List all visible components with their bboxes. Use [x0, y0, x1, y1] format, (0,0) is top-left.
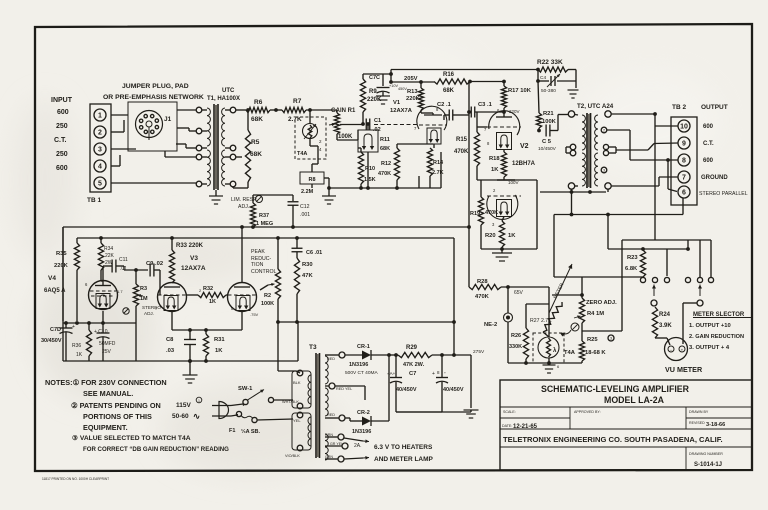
resistor R3 [135, 270, 137, 284]
svg-text:YEL: YEL [293, 418, 301, 423]
wire T4A bottom rail [508, 362, 582, 364]
svg-text:C.T.: C.T. [54, 137, 67, 144]
capacitor C1 [365, 119, 367, 130]
wire bus B [77, 237, 454, 239]
svg-text:GR YEL: GR YEL [330, 442, 343, 446]
potentiometer R2 [277, 238, 279, 269]
svg-text:100K: 100K [261, 301, 274, 307]
svg-text:DRAWN BY: DRAWN BY [689, 410, 709, 414]
svg-text:SCHEMATIC-LEVELING AMPLIFIER: SCHEMATIC-LEVELING AMPLIFIER [541, 384, 690, 394]
ground below R20 [501, 249, 503, 253]
svg-text:470K: 470K [454, 149, 469, 155]
svg-text:R25: R25 [587, 337, 598, 343]
svg-text:SW-1: SW-1 [238, 386, 253, 392]
svg-text:JUMPER PLUG, PAD: JUMPER PLUG, PAD [122, 83, 189, 90]
svg-text:600: 600 [703, 124, 714, 130]
svg-text:R31: R31 [214, 337, 225, 343]
svg-text:R18: R18 [489, 156, 500, 162]
svg-text:R21: R21 [543, 111, 554, 117]
svg-text:.03: .03 [166, 348, 175, 354]
wire T4A to lim resp [311, 163, 313, 165]
selector wiper right [699, 285, 701, 297]
svg-text:40/450V: 40/450V [396, 387, 417, 393]
capacitor C7A [395, 355, 397, 377]
svg-text:R20: R20 [485, 233, 496, 239]
svg-text:50MFD: 50MFD [99, 341, 116, 347]
wire TB2 pin6 down [682, 198, 684, 215]
svg-text:1. OUTPUT +10: 1. OUTPUT +10 [689, 323, 731, 329]
svg-text:GAIN R1: GAIN R1 [331, 108, 356, 114]
selector wiper left [653, 285, 655, 297]
wire stereo parallel jumper [666, 158, 670, 162]
svg-text:C12: C12 [300, 204, 310, 210]
resistor R17 [502, 80, 506, 84]
triode V3 right [228, 283, 257, 312]
wire selector to VU [683, 302, 697, 304]
adjust screw [571, 323, 579, 331]
svg-text:+: + [432, 371, 435, 377]
svg-text:.001: .001 [300, 212, 310, 218]
resistor R15 [474, 132, 479, 166]
svg-text:2A.: 2A. [354, 443, 362, 449]
capacitor C6 [295, 236, 299, 240]
svg-text:10: 10 [680, 124, 688, 131]
svg-text:1M: 1M [140, 296, 148, 302]
wire fuse to T3 [257, 419, 293, 420]
svg-text:C 5: C 5 [542, 139, 552, 145]
meter arrow [549, 264, 572, 313]
resistor R28 [468, 227, 470, 287]
svg-text:600: 600 [703, 158, 714, 164]
svg-text:STEREO: STEREO [142, 305, 161, 310]
ground center [189, 361, 191, 375]
svg-text:+ C10: + C10 [94, 329, 108, 335]
svg-text:PORTIONS OF THIS: PORTIONS OF THIS [83, 412, 152, 421]
svg-text:R26: R26 [511, 333, 521, 339]
svg-text:MODEL LA-2A: MODEL LA-2A [604, 395, 665, 405]
svg-text:R22 33K: R22 33K [537, 59, 563, 66]
svg-text:R4 1M: R4 1M [587, 311, 604, 317]
ground below C7C [382, 92, 384, 96]
resistor R23 [640, 250, 645, 277]
svg-text:R23: R23 [627, 255, 638, 261]
tube V4 [89, 281, 118, 310]
svg-text:600: 600 [57, 109, 69, 116]
svg-text:5: 5 [98, 181, 102, 188]
resistor R35 [76, 238, 78, 243]
resistor R24 [652, 307, 657, 338]
wire to ground ps [396, 411, 471, 413]
svg-text:BLK: BLK [293, 380, 301, 385]
wire R26 top [526, 303, 549, 305]
svg-text:REVISED: REVISED [689, 421, 705, 425]
resistor R7 [282, 107, 306, 112]
wire center tap [335, 385, 365, 387]
svg-text:6.3 V TO HEATERS: 6.3 V TO HEATERS [374, 444, 433, 451]
svg-text:C11: C11 [119, 257, 128, 263]
wire T2 to TB2 pin9 [616, 149, 648, 151]
svg-text:S-1014-1J: S-1014-1J [694, 462, 722, 468]
svg-text:1K: 1K [209, 299, 216, 305]
wire cathode bias row [63, 322, 136, 324]
svg-text:OUTPUT: OUTPUT [701, 104, 728, 111]
svg-text:40/450V: 40/450V [443, 387, 464, 393]
svg-text:PEAK: PEAK [251, 249, 265, 255]
svg-text:RED YEL: RED YEL [336, 387, 352, 391]
svg-text:T4A: T4A [564, 350, 576, 356]
svg-text:220K: 220K [54, 263, 69, 269]
svg-text:100K: 100K [338, 134, 353, 140]
svg-text:1: 1 [198, 399, 200, 403]
svg-text:APPROVED BY:: APPROVED BY: [574, 410, 601, 414]
wire T2 right taps bracket [609, 146, 616, 148]
svg-text:R13: R13 [407, 89, 418, 95]
svg-text:TION: TION [251, 262, 264, 268]
svg-text:EQUIPMENT.: EQUIPMENT. [83, 423, 128, 432]
resistor R5 [247, 110, 249, 130]
svg-text:2. GAIN REDUCTION: 2. GAIN REDUCTION [689, 334, 744, 340]
svg-text:+: + [681, 348, 684, 353]
svg-text:AND METER LAMP: AND METER LAMP [374, 456, 434, 463]
connector J1 [136, 111, 163, 138]
wire meter bus [622, 239, 711, 241]
resistor R6 [246, 107, 270, 112]
wire V3 right plate up [241, 227, 243, 283]
capacitor C11 [111, 260, 113, 273]
ground power supply [464, 409, 479, 411]
svg-text:C7C: C7C [369, 75, 380, 81]
resistor R27 [543, 302, 562, 332]
svg-text:3: 3 [603, 168, 605, 172]
svg-text:RED: RED [327, 413, 335, 417]
svg-text:CONTROL: CONTROL [251, 269, 276, 275]
ground at C4 [575, 81, 577, 88]
svg-text:FOR CORRECT “DB GAIN REDUCTION: FOR CORRECT “DB GAIN REDUCTION” READING [83, 446, 229, 453]
resistor R18 [503, 149, 505, 152]
svg-text:R33 220K: R33 220K [176, 243, 204, 249]
svg-text:T3: T3 [309, 344, 317, 351]
svg-text:450V: 450V [398, 87, 407, 91]
wire cathode return line [329, 187, 441, 189]
svg-text:WHT/BLK: WHT/BLK [282, 400, 299, 404]
svg-text:② PATENTS PENDING ON: ② PATENTS PENDING ON [71, 401, 161, 410]
trimmer capacitor C4 [550, 76, 552, 86]
wire V2 cathode bottom [477, 179, 537, 181]
svg-text:250: 250 [56, 123, 68, 130]
ground below R8 [322, 195, 336, 197]
resistor R20 [502, 217, 504, 222]
resistor R36 [88, 323, 90, 330]
photocell of T4A [309, 110, 311, 124]
svg-text:2: 2 [98, 130, 102, 137]
svg-text:1K: 1K [491, 167, 499, 173]
wire T2 to TB2 pin10 [611, 113, 655, 115]
svg-text:DATE:: DATE: [502, 424, 512, 428]
svg-text:ADJ.: ADJ. [144, 311, 154, 316]
svg-text:⅓A SB.: ⅓A SB. [241, 429, 261, 435]
transformer T1 [196, 107, 202, 113]
svg-text:▫ A+: ▫ A+ [387, 371, 396, 376]
wire selector feed [608, 248, 688, 250]
svg-text:1.5K: 1.5K [364, 177, 376, 183]
resistor R21 [538, 81, 539, 113]
resistor R25 [581, 328, 583, 341]
svg-text:12AX7A: 12AX7A [181, 265, 206, 272]
wire top supply line [391, 69, 538, 71]
svg-text:1N3196: 1N3196 [349, 362, 368, 368]
wire ground bus [63, 360, 298, 362]
triode V2 upper [489, 111, 520, 135]
transformer T3 secondary [325, 356, 328, 384]
svg-text:TELETRONIX ENGINEERING CO.: TELETRONIX ENGINEERING CO. SOUTH PASADEN… [503, 435, 723, 444]
svg-text:1: 1 [98, 113, 102, 120]
svg-text:R2: R2 [264, 293, 271, 299]
svg-text:C6 .01: C6 .01 [306, 250, 322, 256]
resistor R37 [252, 195, 254, 203]
wire left riser [62, 227, 64, 323]
svg-text:−: − [670, 348, 673, 353]
wire T1 bottom to ground [236, 156, 242, 158]
capacitor C12 [288, 201, 299, 203]
resistor R13 [418, 88, 423, 110]
svg-text:ZERO ADJ.: ZERO ADJ. [586, 300, 617, 306]
svg-text:SCALE:: SCALE: [503, 410, 516, 414]
svg-text:11817 PRINTED ON NO. 1000H: 11817 PRINTED ON NO. 1000H CLEARPRINT [42, 477, 109, 481]
resistor R26 [525, 304, 527, 328]
resistor R10 [358, 152, 363, 184]
resistor R19 [478, 197, 483, 225]
wire primary riser [278, 370, 296, 372]
svg-text:∿: ∿ [193, 411, 200, 421]
svg-text:470K: 470K [475, 294, 490, 300]
svg-text:R24: R24 [659, 312, 671, 318]
svg-text:30/450V: 30/450V [41, 338, 62, 344]
fuse F1 [236, 411, 241, 416]
svg-text:F1: F1 [229, 428, 235, 434]
capacitor C7B [441, 355, 443, 377]
resistor R12 [394, 148, 399, 180]
svg-text:R11: R11 [380, 137, 390, 143]
svg-text:R16: R16 [443, 72, 455, 78]
wire V3 cathodes [171, 311, 173, 330]
svg-text:INPUT: INPUT [51, 97, 73, 104]
resistor R9 [360, 79, 365, 112]
svg-text:R8: R8 [308, 177, 315, 183]
wire R7 to gain pot [306, 109, 337, 111]
svg-text:3: 3 [98, 147, 102, 154]
triode V2 lower [487, 195, 518, 219]
wire T4A top [548, 287, 550, 337]
svg-text:C7D: C7D [50, 327, 61, 333]
wire B+ drop [453, 238, 455, 355]
svg-text:47K: 47K [302, 273, 313, 279]
svg-text:STEREO PARALLEL: STEREO PARALLEL [699, 191, 748, 197]
svg-text:470K: 470K [378, 171, 391, 177]
svg-text:GROUND: GROUND [701, 175, 728, 181]
wire R16 right [470, 81, 504, 83]
svg-text:220K: 220K [406, 96, 421, 102]
svg-text:10/450V: 10/450V [538, 146, 557, 152]
wire grid R15 top [476, 112, 478, 127]
photocell lamp [538, 337, 559, 358]
svg-text:R29: R29 [406, 345, 418, 351]
wire T1 secondary top [236, 109, 246, 111]
svg-text:2.2M: 2.2M [301, 189, 314, 195]
wire 322 line [278, 321, 454, 323]
svg-text:+: + [72, 324, 75, 330]
svg-text:68K: 68K [250, 151, 262, 158]
svg-text:4: 4 [98, 164, 102, 171]
selector contacts left [640, 277, 645, 282]
svg-text:V1: V1 [393, 100, 401, 106]
svg-text:R17 10K: R17 10K [508, 88, 532, 94]
svg-text:50-60: 50-60 [172, 413, 189, 420]
svg-text:115V: 115V [176, 402, 191, 409]
wire C5 to T2 primary [550, 130, 558, 132]
svg-text:GRN: GRN [325, 433, 333, 437]
wire C1 to V1 grid [340, 124, 362, 126]
resistor R14 [433, 144, 435, 148]
svg-text:R5: R5 [251, 139, 260, 146]
resistor R8 [300, 172, 324, 184]
wire R37 node [253, 194, 293, 196]
svg-text:18-68 K: 18-68 K [585, 350, 606, 356]
svg-text:R34: R34 [104, 246, 113, 252]
wire bleeder [470, 355, 472, 408]
wire R22 bypass [537, 70, 539, 82]
wire R6-R7 [270, 109, 282, 111]
svg-text:3. OUTPUT + 4: 3. OUTPUT + 4 [689, 345, 730, 351]
VU meter [665, 338, 688, 361]
svg-text:1 MEG: 1 MEG [256, 221, 273, 227]
svg-text:CR-2: CR-2 [357, 410, 370, 416]
svg-text:205V: 205V [404, 76, 418, 82]
svg-text:6: 6 [682, 190, 686, 197]
svg-text:R3: R3 [140, 286, 147, 292]
jumper plug box [128, 102, 177, 151]
svg-text:250: 250 [56, 151, 68, 158]
wire filter ground [396, 411, 442, 413]
resistor R30 [296, 252, 298, 258]
svg-text:R12: R12 [381, 161, 391, 167]
svg-text:12AX7A: 12AX7A [390, 108, 413, 114]
svg-text:68K: 68K [443, 88, 455, 94]
terminal strip TB2 [671, 117, 697, 205]
svg-text:TB 1: TB 1 [87, 197, 101, 204]
svg-text:275V: 275V [473, 349, 485, 355]
svg-text:R9: R9 [369, 89, 377, 95]
svg-text:NE-2: NE-2 [484, 322, 497, 328]
svg-text:2.7K: 2.7K [432, 170, 444, 176]
wire T2 left taps [566, 146, 570, 148]
wire top supply riser [390, 70, 392, 83]
svg-text:12BH7A: 12BH7A [512, 161, 536, 167]
svg-text:V2: V2 [520, 143, 529, 150]
svg-text:VU METER: VU METER [665, 365, 703, 374]
svg-text:65V: 65V [514, 290, 524, 296]
svg-text:2: 2 [603, 128, 605, 132]
svg-text:68K: 68K [251, 116, 263, 123]
svg-text:C3 .1: C3 .1 [478, 102, 493, 108]
svg-text:R6: R6 [254, 99, 263, 106]
wire plate to T2 [571, 189, 573, 215]
wire R8 to ground [311, 184, 313, 188]
svg-text:V4: V4 [48, 275, 56, 282]
svg-text:R37: R37 [259, 213, 269, 219]
wire switch to T3 [274, 399, 294, 401]
svg-text:6.8K: 6.8K [625, 266, 638, 272]
svg-text:22K: 22K [105, 253, 115, 259]
svg-text:68K: 68K [380, 146, 390, 152]
svg-text:V3: V3 [190, 255, 198, 262]
svg-text:50-380: 50-380 [541, 88, 556, 94]
wire R5 bottom [247, 182, 249, 188]
svg-text:330K: 330K [509, 344, 522, 350]
terminal strip TB1 [90, 104, 111, 192]
wire coupling to V2 [468, 82, 470, 227]
svg-text:ADJ.: ADJ. [238, 204, 249, 210]
wire V2 lower box [480, 180, 482, 190]
svg-text:VIO/BLK: VIO/BLK [285, 454, 300, 458]
svg-text:1.7: 1.7 [117, 289, 123, 294]
svg-text:OR PRE-EMPHASIS NETWORK: OR PRE-EMPHASIS NETWORK [103, 94, 204, 101]
photocell T4A lower dashed box [533, 333, 564, 363]
svg-text:470K: 470K [485, 210, 498, 216]
svg-text:J1: J1 [164, 116, 172, 123]
ground below T1 [215, 190, 217, 196]
wire ground bus right [297, 322, 299, 361]
svg-text:1K: 1K [76, 352, 83, 358]
svg-text:③ VALUE SELECTED TO MATCH T4A: ③ VALUE SELECTED TO MATCH T4A [72, 434, 191, 442]
svg-text:1K: 1K [508, 233, 516, 239]
svg-text:7: 7 [682, 175, 686, 182]
svg-text:C2 .1: C2 .1 [437, 102, 452, 108]
wire selector riser [666, 249, 668, 276]
svg-text:3.9K: 3.9K [659, 323, 672, 329]
wire T2 to TB2 pin8 [607, 129, 630, 131]
resistor R11 box [358, 130, 378, 152]
resistor R16 [434, 79, 470, 84]
svg-text:C.T.: C.T. [703, 141, 714, 147]
optical attenuator T4A dashed box [295, 117, 326, 159]
svg-text:SEE MANUAL.: SEE MANUAL. [83, 389, 133, 398]
svg-text:TB 2: TB 2 [672, 104, 686, 111]
resistor R31 [205, 330, 207, 334]
svg-text:9: 9 [682, 141, 686, 148]
svg-text:600: 600 [56, 165, 68, 172]
svg-text:R32: R32 [203, 286, 213, 292]
potentiometer R4 [581, 277, 583, 298]
svg-text:R19: R19 [470, 211, 480, 217]
wire photocell to R8 [309, 139, 311, 146]
wire zero adj box [582, 276, 643, 278]
resistor R32 [198, 292, 226, 297]
wire T2 to TB2 pin7 [611, 185, 659, 187]
svg-text:R15: R15 [456, 137, 468, 143]
capacitor C10 [102, 311, 104, 323]
wire R28 right [501, 286, 549, 288]
svg-text:T4A: T4A [297, 151, 307, 157]
svg-text:100K: 100K [542, 119, 557, 125]
svg-text:T2, UTC A24: T2, UTC A24 [577, 103, 614, 110]
wire bus A [63, 226, 469, 228]
svg-text:R35: R35 [56, 251, 67, 257]
wire jumper to T1 [177, 109, 196, 111]
transformer T2 [568, 111, 574, 117]
wire R24 to VU [655, 337, 667, 339]
svg-text:1N3196: 1N3196 [352, 429, 371, 435]
svg-text:NOTES:① FOR 230V CONNECTION: NOTES:① FOR 230V CONNECTION [45, 378, 167, 387]
